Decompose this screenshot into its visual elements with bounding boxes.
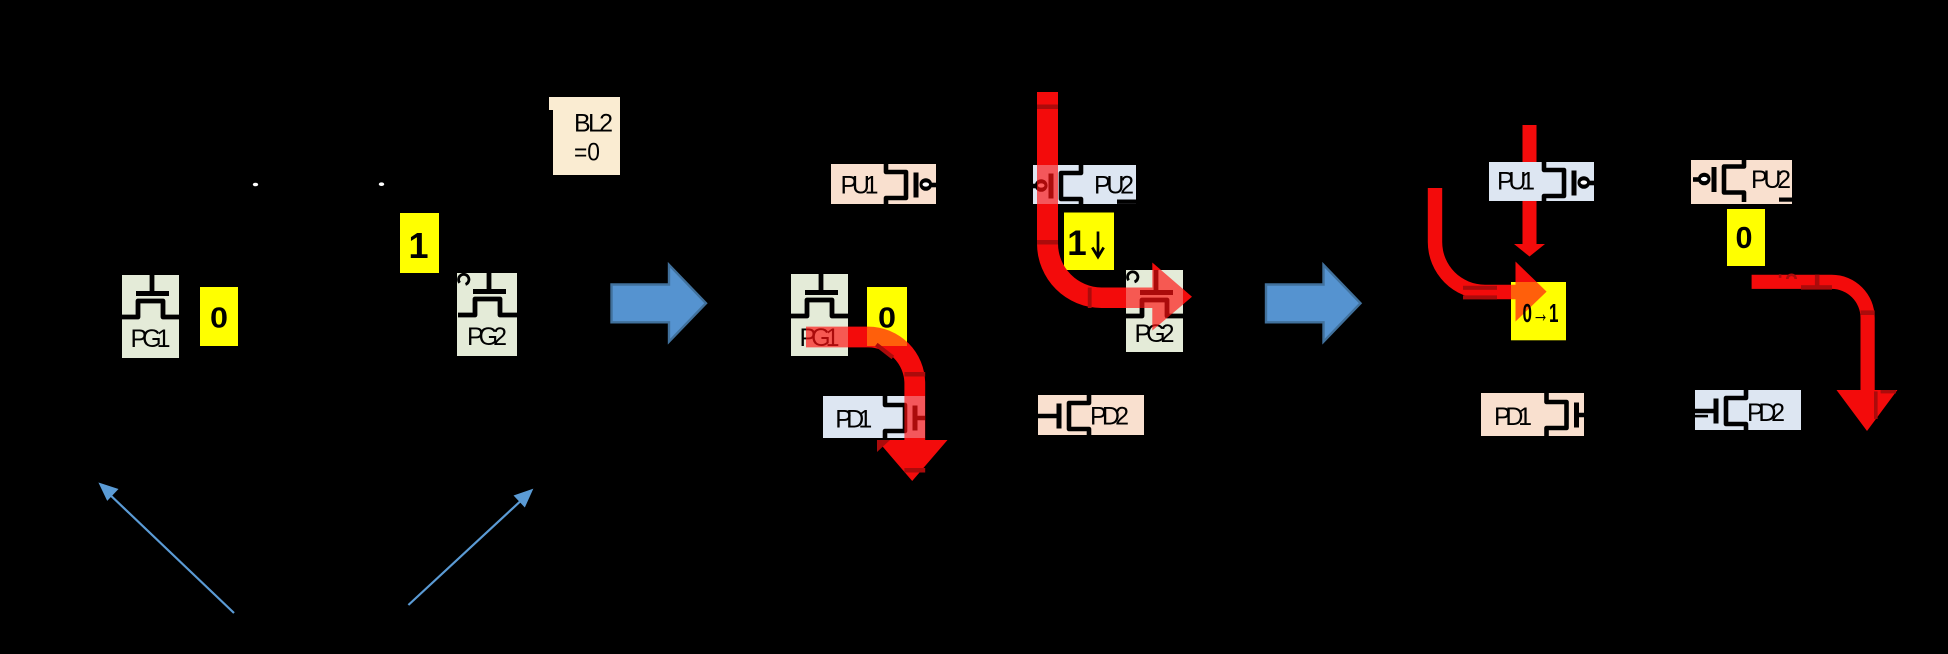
svg-text:1: 1 [1067, 224, 1086, 263]
svg-text:1: 1 [408, 225, 428, 266]
svg-text:BL2: BL2 [574, 110, 613, 138]
svg-text:PU2: PU2 [1094, 172, 1134, 200]
svg-text:0: 0 [210, 303, 228, 335]
svg-text:PU1: PU1 [1497, 168, 1535, 196]
svg-text:PU2: PU2 [1751, 166, 1791, 194]
svg-text:0: 0 [1736, 220, 1753, 255]
svg-text:PG2: PG2 [467, 323, 507, 351]
svg-text:PD2: PD2 [1747, 399, 1785, 427]
svg-text:PD1: PD1 [835, 406, 872, 434]
svg-text:PG1: PG1 [131, 325, 171, 353]
svg-text:PD1: PD1 [1494, 403, 1532, 431]
svg-text:0→1: 0→1 [1523, 298, 1559, 328]
svg-text:PU1: PU1 [841, 172, 879, 200]
svg-text:PD2: PD2 [1090, 403, 1129, 431]
svg-text:=0: =0 [574, 139, 600, 167]
